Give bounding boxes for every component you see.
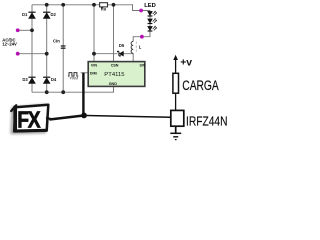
capacitor Cin	[53, 38, 66, 48]
LED terminal upper	[139, 9, 143, 13]
svg-text:PT4115: PT4115	[104, 72, 125, 78]
transistor Q1 IRFZ44N MOSFET	[171, 110, 228, 128]
wire column D2 D4	[46, 5, 48, 92]
diode D2	[43, 12, 56, 18]
svg-text:DIM: DIM	[90, 71, 97, 75]
wire bottom ground rail	[32, 86, 114, 92]
wire PWM to gate thick vertical	[82, 73, 84, 115]
svg-text:FX: FX	[17, 108, 40, 133]
ground	[170, 126, 181, 139]
wire gate to MOSFET	[87, 116, 171, 118]
wire top rail left segment	[32, 4, 100, 6]
LED terminal lower	[140, 35, 144, 39]
wire column D1 D3	[31, 5, 33, 92]
PWM source symbol	[68, 73, 78, 81]
node dot ground rail Cin	[61, 90, 65, 94]
LED 2	[148, 18, 157, 23]
node dot ground rail D4	[45, 90, 49, 94]
label AC/DC 12~24V	[2, 37, 17, 46]
svg-text:CARGA: CARGA	[182, 78, 218, 93]
node junction gate	[81, 113, 87, 119]
wire column Cin	[62, 5, 64, 92]
svg-text:VIN: VIN	[91, 63, 97, 67]
IC U1 PT4115 LED driver	[88, 62, 146, 87]
svg-text:PWM: PWM	[70, 77, 79, 81]
svg-text:D5: D5	[119, 43, 125, 48]
wire SW to coil	[132, 53, 134, 62]
diode D3	[22, 77, 35, 83]
svg-text:L: L	[139, 45, 142, 50]
LED chain wire	[149, 11, 151, 36]
svg-text:Rs: Rs	[101, 6, 107, 11]
svg-text:SW: SW	[140, 63, 146, 67]
wire AC input upper	[18, 29, 32, 31]
diode D5 schottky	[118, 43, 125, 56]
svg-text:CSN: CSN	[111, 63, 119, 67]
node dot rail VIN	[92, 3, 96, 7]
wire step down to LED plus	[133, 4, 151, 10]
wire CARGA to drain	[175, 94, 177, 111]
diode D1	[22, 12, 36, 18]
wire top rail right segment	[108, 4, 133, 6]
node dot rail D2	[45, 3, 49, 7]
power +V supply arrow	[173, 55, 192, 73]
node dot rail CSN	[112, 3, 116, 7]
svg-text:D4: D4	[51, 77, 57, 82]
wire AC input lower	[18, 53, 47, 55]
inductor L	[131, 41, 142, 53]
svg-text:12~24V: 12~24V	[2, 42, 17, 47]
svg-text:IRFZ44N: IRFZ44N	[186, 113, 228, 128]
svg-text:D1: D1	[22, 12, 28, 17]
logo FX watermark	[11, 105, 51, 134]
wire from FX logo	[50, 116, 82, 120]
AC input terminal upper	[16, 28, 20, 32]
diode D4	[43, 77, 57, 83]
svg-text:Cin: Cin	[53, 38, 60, 43]
svg-text:GND: GND	[109, 82, 118, 86]
svg-text:+v: +v	[180, 58, 192, 69]
LED 3	[148, 26, 157, 31]
wire column CSN	[113, 5, 115, 62]
node dot D5 VIN	[92, 52, 96, 56]
resistor CARGA load	[173, 73, 219, 93]
resistor Rs	[100, 3, 108, 12]
wire DIM pin	[81, 72, 89, 74]
wire D5 freewheel	[94, 53, 133, 55]
node dot AC lower	[45, 52, 49, 56]
svg-text:D3: D3	[22, 77, 28, 82]
node dot AC upper	[30, 28, 34, 32]
wire column VIN	[93, 5, 95, 62]
node dot rail Cin	[61, 3, 65, 7]
svg-text:D2: D2	[51, 12, 57, 17]
svg-text:LED: LED	[144, 3, 156, 9]
AC input terminal lower	[16, 52, 20, 56]
wire LED return to inductor	[133, 35, 150, 41]
LED 1	[148, 11, 157, 16]
